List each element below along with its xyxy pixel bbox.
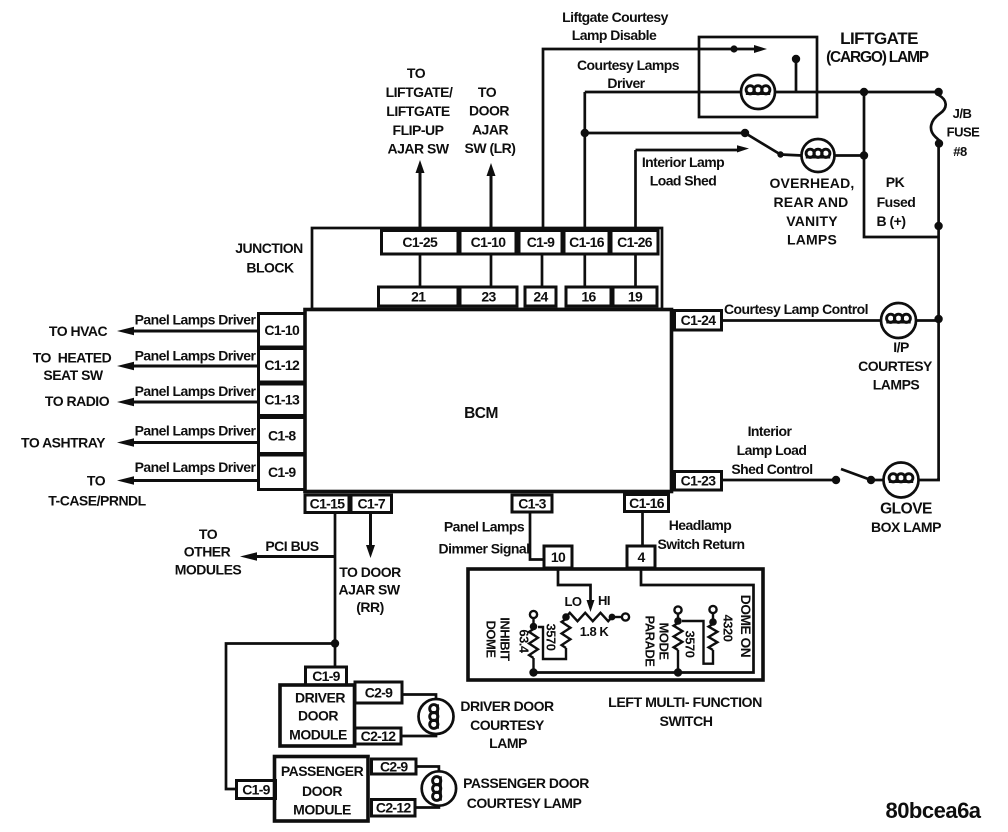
lamp: driver door courtesy lamp bulb bbox=[419, 699, 454, 734]
svg-text:SEAT SW: SEAT SW bbox=[43, 367, 104, 383]
label: PARADE MODE (rotated) bbox=[643, 616, 672, 668]
connector C1-15 (BCM bottom) bbox=[305, 495, 349, 513]
label: Courtesy Lamps Driver bbox=[577, 57, 680, 91]
svg-text:C2-9: C2-9 bbox=[380, 758, 408, 774]
wire: panel lamps driver arrow 1 bbox=[129, 330, 259, 333]
svg-text:LAMPS: LAMPS bbox=[873, 377, 920, 393]
svg-text:AJAR: AJAR bbox=[472, 122, 509, 138]
svg-text:C1-16: C1-16 bbox=[629, 495, 665, 511]
label: PASSENGER DOOR COURTESY LAMP bbox=[463, 775, 589, 811]
wire: panel lamps driver arrow 3 bbox=[129, 401, 259, 404]
node: bottom rail left junction bbox=[529, 668, 537, 676]
svg-text:3570: 3570 bbox=[683, 631, 698, 658]
wire: pin 21 to C1-25 bbox=[419, 254, 422, 287]
svg-text:C1-9: C1-9 bbox=[527, 234, 555, 250]
svg-text:TO RADIO: TO RADIO bbox=[45, 393, 110, 409]
connector C1-9 (driver door module) bbox=[306, 667, 347, 685]
svg-text:16: 16 bbox=[581, 288, 596, 304]
label: OVERHEAD REAR AND VANITY LAMPS bbox=[769, 175, 854, 248]
wire: C1-26 up to load-shed arrow contact bbox=[636, 145, 750, 287]
junction block outline bbox=[312, 228, 662, 309]
svg-text:DOME: DOME bbox=[484, 621, 499, 659]
svg-text:C1-16: C1-16 bbox=[569, 234, 605, 250]
label: LEFT MULTI- FUNCTION SWITCH bbox=[608, 695, 762, 730]
pin 10 (multifunction switch) bbox=[544, 546, 572, 568]
svg-text:C1-9: C1-9 bbox=[242, 781, 270, 797]
svg-text:C1-8: C1-8 bbox=[268, 427, 296, 443]
node: pot left end bbox=[562, 613, 570, 621]
resistor: 3570 (dimmer branch) bbox=[562, 619, 571, 648]
lamp: overhead rear vanity lamps bulb bbox=[802, 139, 835, 172]
wire: C2-9 to driver courtesy lamp bbox=[402, 695, 436, 700]
wire: courtesy lamps driver vertical from junction block C1-16 bbox=[583, 92, 586, 287]
wire: PK fused B(+) drop from top rail to main vertical bbox=[864, 92, 939, 237]
label: DRIVER DOOR COURTESY LAMP bbox=[460, 698, 554, 751]
svg-text:MODULE: MODULE bbox=[293, 802, 351, 818]
label: I/P COURTESY LAMPS bbox=[858, 339, 933, 393]
svg-text:C1-10: C1-10 bbox=[471, 234, 507, 250]
svg-text:C1-12: C1-12 bbox=[264, 357, 300, 373]
svg-text:HI: HI bbox=[598, 593, 610, 608]
pin 23 (BCM top) bbox=[460, 287, 517, 306]
svg-text:Load Shed: Load Shed bbox=[650, 173, 717, 189]
svg-text:INHIBIT: INHIBIT bbox=[498, 617, 513, 661]
svg-text:PASSENGER: PASSENGER bbox=[281, 763, 364, 779]
wire: courtesy lamps driver feed into liftgate lamp bbox=[585, 91, 742, 94]
label: Headlamp Switch Return bbox=[658, 517, 745, 552]
svg-text:DOOR: DOOR bbox=[469, 103, 509, 119]
wire + terminal: pot HI end open contact bbox=[612, 613, 629, 620]
svg-text:LEFT MULTI- FUNCTION: LEFT MULTI- FUNCTION bbox=[608, 695, 762, 711]
svg-text:C1-15: C1-15 bbox=[310, 496, 346, 512]
wire: panel lamps driver arrow 5 bbox=[129, 479, 259, 482]
svg-text:TO HVAC: TO HVAC bbox=[49, 323, 108, 339]
svg-text:TO DOOR: TO DOOR bbox=[339, 564, 401, 580]
wire: C2-12 to passenger courtesy lamp bbox=[415, 806, 439, 808]
svg-text:Panel Lamps Driver: Panel Lamps Driver bbox=[135, 383, 257, 399]
svg-text:OTHER: OTHER bbox=[184, 544, 231, 560]
wire: C1-9 bus down to driver door module bbox=[334, 644, 337, 668]
svg-text:Lamp Disable: Lamp Disable bbox=[572, 27, 657, 43]
pin 4 (multifunction switch) bbox=[627, 546, 655, 568]
svg-text:TO: TO bbox=[199, 526, 218, 542]
wire: glove box lamp to B(+) vertical bbox=[919, 478, 939, 480]
resistor: 63.4 bbox=[529, 629, 538, 658]
resistor: 4320 bbox=[709, 624, 718, 650]
fuse: J/B FUSE #8 bbox=[931, 95, 946, 141]
wire: branch to passenger door module bbox=[226, 644, 335, 790]
wire: switch to glove box lamp bbox=[871, 479, 884, 482]
svg-text:C1-9: C1-9 bbox=[268, 464, 296, 480]
switch contact stub inside liftgate lamp box bbox=[792, 55, 800, 91]
connector C1-8 (BCM left side) bbox=[259, 418, 306, 454]
svg-text:Courtesy Lamp Control: Courtesy Lamp Control bbox=[724, 301, 868, 317]
pin 21 (BCM top) bbox=[379, 287, 459, 306]
svg-text:C1-23: C1-23 bbox=[681, 473, 717, 489]
connector C1-10 (junction block) bbox=[460, 231, 516, 255]
label: TO OTHER MODULES bbox=[175, 526, 242, 578]
connector C1-25 (junction block) bbox=[382, 231, 459, 255]
node: liftgate lamp switch pivot dot bbox=[730, 45, 737, 52]
svg-text:DRIVER DOOR: DRIVER DOOR bbox=[460, 698, 554, 714]
connector C1-16 (junction block) bbox=[564, 231, 609, 255]
label: destination 4 bbox=[21, 435, 106, 451]
svg-text:TO: TO bbox=[87, 473, 106, 489]
component box: LIFTGATE (CARGO) LAMP enclosure bbox=[699, 37, 817, 117]
lamp: passenger door courtesy lamp bulb bbox=[422, 771, 456, 805]
svg-text:LO: LO bbox=[564, 594, 581, 609]
wire: pin 4 feed around switch interior (bottom rail) bbox=[534, 568, 754, 673]
label: Interior Lamp Load Shed bbox=[642, 154, 724, 189]
svg-text:BLOCK: BLOCK bbox=[246, 260, 294, 276]
wire: courtesy lamp control to I/P lamps bbox=[722, 319, 882, 322]
svg-text:C1-25: C1-25 bbox=[402, 234, 438, 250]
svg-text:OVERHEAD,: OVERHEAD, bbox=[769, 175, 854, 191]
svg-text:#8: #8 bbox=[953, 144, 967, 159]
label: destination 5 bbox=[48, 473, 146, 509]
svg-text:MODULE: MODULE bbox=[289, 727, 347, 743]
wire: panel lamps driver arrow 4 bbox=[129, 441, 259, 444]
svg-text:10: 10 bbox=[551, 549, 566, 565]
connector C1-16 (BCM bottom) bbox=[625, 495, 669, 512]
pin 19 (BCM top) bbox=[613, 287, 657, 306]
arrow: to door ajar sw (LR) bbox=[490, 173, 493, 231]
svg-text:TO HEATED: TO HEATED bbox=[33, 350, 112, 366]
svg-text:C1-13: C1-13 bbox=[264, 392, 300, 408]
svg-text:C1-24: C1-24 bbox=[681, 312, 717, 328]
svg-text:Liftgate Courtesy: Liftgate Courtesy bbox=[562, 9, 669, 25]
wire: top B(+) rail from liftgate lamp to J/B fuse bbox=[775, 91, 939, 94]
node: glove box switch left contact bbox=[832, 476, 840, 484]
label: JUNCTION BLOCK bbox=[235, 240, 303, 276]
label: Liftgate Courtesy Lamp Disable bbox=[562, 9, 669, 43]
connector C1-9 (passenger door module) bbox=[237, 781, 276, 799]
label: Interior Lamp Load Shed Control bbox=[731, 423, 812, 477]
svg-text:TO ASHTRAY: TO ASHTRAY bbox=[21, 435, 106, 451]
svg-text:LAMP: LAMP bbox=[489, 735, 527, 751]
wiper arrow onto 1.8K pot bbox=[587, 600, 595, 612]
svg-text:23: 23 bbox=[481, 288, 496, 304]
svg-text:Panel Lamps Driver: Panel Lamps Driver bbox=[135, 348, 257, 364]
component: BCM body control module bbox=[305, 310, 672, 492]
connector C1-3 (BCM bottom) bbox=[512, 495, 552, 512]
wire: C2-12 to driver courtesy lamp bbox=[401, 734, 436, 737]
svg-text:C1-10: C1-10 bbox=[264, 322, 300, 338]
arrow: PCI bus to other modules bbox=[252, 555, 335, 558]
svg-text:(CARGO) LAMP: (CARGO) LAMP bbox=[826, 49, 929, 66]
svg-text:C2-12: C2-12 bbox=[361, 728, 397, 744]
terminal: DOME INHIBIT open contact bbox=[530, 611, 537, 618]
lamp: I/P courtesy lamps bulb bbox=[881, 303, 916, 338]
component: PASSENGER DOOR MODULE bbox=[275, 757, 369, 822]
resistor: 1.8K dimmer pot bbox=[566, 613, 612, 621]
svg-text:1.8 K: 1.8 K bbox=[580, 624, 610, 639]
wire: pin 24 to C1-9 bbox=[541, 254, 544, 287]
svg-text:AJAR SW: AJAR SW bbox=[338, 582, 400, 598]
wire: main B(+) vertical bus x=939 bbox=[937, 144, 940, 481]
node: junction dot on B(+) vertical above PK join bbox=[934, 222, 942, 230]
svg-text:80bcea6a: 80bcea6a bbox=[885, 798, 981, 823]
svg-text:GLOVE: GLOVE bbox=[880, 501, 932, 518]
connector C1-9 (junction block) bbox=[519, 231, 562, 255]
node: pot right end bbox=[609, 614, 616, 621]
pin 16 (BCM top) bbox=[566, 287, 611, 306]
svg-text:BCM: BCM bbox=[464, 405, 498, 422]
svg-text:Lamp Load: Lamp Load bbox=[737, 442, 807, 458]
wire: load shed switch feed (to blade pivot) bbox=[585, 132, 743, 135]
connector C1-26 (junction block) bbox=[611, 231, 658, 255]
svg-text:PCI BUS: PCI BUS bbox=[265, 538, 318, 554]
svg-text:JUNCTION: JUNCTION bbox=[235, 240, 303, 256]
connector C1-24 (BCM right side) bbox=[675, 311, 722, 331]
wire: 4320 bottom loop to parade junction bbox=[682, 621, 713, 664]
wire: pin 10 to dimmer pot wiper bbox=[558, 568, 591, 600]
svg-text:I/P: I/P bbox=[893, 339, 909, 355]
node: load shed switch upper contact bbox=[741, 129, 749, 137]
svg-text:COURTESY: COURTESY bbox=[470, 717, 545, 733]
svg-text:PK: PK bbox=[886, 174, 905, 190]
svg-text:LIFTGATE: LIFTGATE bbox=[386, 103, 450, 119]
wire: C2-9 to passenger courtesy lamp bbox=[416, 767, 439, 772]
wire: overhead lamp to B(+) drop bbox=[835, 154, 865, 157]
svg-text:C2-9: C2-9 bbox=[365, 684, 393, 700]
wire: Liftgate Courtesy Lamp Disable (junction block C1-9 up and over to liftgate lamp switch) bbox=[543, 49, 731, 232]
svg-text:DOME ON: DOME ON bbox=[738, 595, 753, 658]
svg-text:PARADE: PARADE bbox=[643, 616, 658, 668]
svg-text:C1-7: C1-7 bbox=[357, 496, 385, 512]
svg-text:REAR AND: REAR AND bbox=[774, 194, 849, 210]
switch: liftgate lamp built-in switch blade (arrow) bbox=[737, 45, 767, 53]
wire: I/P lamp to B(+) vertical bbox=[916, 319, 939, 322]
svg-text:LIFTGATE: LIFTGATE bbox=[840, 29, 918, 48]
connector C1-12 (BCM left side) bbox=[259, 349, 306, 383]
svg-text:(RR): (RR) bbox=[356, 599, 384, 615]
svg-text:Fused: Fused bbox=[877, 194, 916, 210]
svg-text:MODULES: MODULES bbox=[175, 562, 242, 578]
svg-text:BOX LAMP: BOX LAMP bbox=[871, 519, 941, 535]
connector C2-12 (passenger door module) bbox=[372, 800, 416, 817]
component box: LEFT MULTI-FUNCTION SWITCH bbox=[468, 569, 763, 680]
svg-text:PASSENGER DOOR: PASSENGER DOOR bbox=[463, 775, 589, 791]
svg-text:24: 24 bbox=[533, 288, 548, 304]
wire: interior lamp load shed control bbox=[722, 479, 837, 482]
svg-text:21: 21 bbox=[411, 288, 426, 304]
svg-text:B (+): B (+) bbox=[877, 213, 906, 229]
wire: 63.4 to bottom rail bbox=[532, 658, 534, 673]
node: parade junction bbox=[674, 614, 682, 625]
switch: glove box lamp switch blade bbox=[841, 469, 875, 484]
svg-text:FLIP-UP: FLIP-UP bbox=[393, 122, 444, 138]
terminal: DOME ON open contact bbox=[709, 606, 716, 613]
wire: parade 3570 to bottom rail bbox=[677, 650, 679, 673]
label: destination 3 bbox=[45, 393, 110, 409]
node: dome inhibit junction bbox=[530, 618, 538, 630]
component: DRIVER DOOR MODULE bbox=[280, 685, 355, 746]
wire: C1-3 to multifunction switch pin 10 (panel lamps dimmer signal) bbox=[530, 512, 544, 560]
node: dome-on resistor top bbox=[709, 613, 717, 626]
connector C1-10 (BCM left side) bbox=[259, 314, 306, 348]
label: TO LIFTGATE/LIFTGATE FLIP-UP AJAR SW bbox=[386, 65, 453, 157]
svg-text:C2-12: C2-12 bbox=[376, 800, 412, 816]
svg-text:Interior Lamp: Interior Lamp bbox=[642, 154, 724, 170]
svg-text:Courtesy Lamps: Courtesy Lamps bbox=[577, 57, 680, 73]
svg-text:SWITCH: SWITCH bbox=[660, 714, 713, 730]
label: destination 1 bbox=[49, 323, 108, 339]
wire: load shed blade to overhead lamp bbox=[781, 155, 803, 156]
svg-text:FUSE: FUSE bbox=[947, 125, 981, 140]
svg-text:Headlamp: Headlamp bbox=[669, 517, 732, 533]
node: junction on driver wire at load-shed tee bbox=[581, 129, 589, 137]
svg-text:Dimmer Signal: Dimmer Signal bbox=[439, 541, 530, 557]
svg-text:LIFTGATE/: LIFTGATE/ bbox=[386, 84, 453, 100]
svg-text:4320: 4320 bbox=[721, 615, 736, 642]
svg-text:Driver: Driver bbox=[607, 75, 645, 91]
svg-text:J/B: J/B bbox=[953, 106, 972, 121]
svg-text:SW (LR): SW (LR) bbox=[465, 140, 516, 156]
label: TO DOOR AJAR SW (RR) bbox=[338, 564, 401, 615]
label: Panel Lamps Dimmer Signal bbox=[439, 519, 530, 557]
svg-text:AJAR SW: AJAR SW bbox=[387, 141, 449, 157]
svg-text:4: 4 bbox=[637, 549, 645, 565]
resistor: 3570 (parade branch) bbox=[674, 623, 683, 650]
svg-text:Shed Control: Shed Control bbox=[731, 461, 812, 477]
connector C1-7 (BCM bottom) bbox=[351, 495, 392, 513]
svg-text:C1-3: C1-3 bbox=[518, 495, 546, 511]
wire: panel lamps driver arrow 2 bbox=[129, 365, 259, 368]
svg-text:Panel Lamps: Panel Lamps bbox=[444, 519, 525, 535]
label: destination 2 bbox=[33, 350, 112, 384]
svg-text:Panel Lamps Driver: Panel Lamps Driver bbox=[135, 423, 257, 439]
svg-text:63.4: 63.4 bbox=[517, 629, 532, 654]
svg-text:Panel Lamps Driver: Panel Lamps Driver bbox=[135, 311, 257, 327]
svg-text:T-CASE/PRNDL: T-CASE/PRNDL bbox=[48, 493, 146, 509]
wire: 3570 bottom loop to dome-inhibit junction bbox=[538, 627, 566, 659]
label: PK Fused B (+) bbox=[877, 174, 916, 229]
svg-text:DOOR: DOOR bbox=[298, 708, 338, 724]
node: fuse top terminal bbox=[934, 88, 942, 96]
label: J/B FUSE #8 bbox=[947, 106, 981, 159]
svg-text:Interior: Interior bbox=[748, 423, 793, 439]
connector C2-9 (passenger door module) bbox=[372, 758, 417, 774]
svg-text:COURTESY LAMP: COURTESY LAMP bbox=[467, 795, 582, 811]
svg-text:MODE: MODE bbox=[657, 623, 672, 661]
label: DOME INHIBIT (rotated) bbox=[484, 617, 513, 661]
node: fuse bottom terminal bbox=[935, 139, 943, 147]
svg-text:3570: 3570 bbox=[544, 624, 559, 651]
lamp: liftgate cargo lamp bulb bbox=[741, 75, 775, 109]
wire: PCI bus from C1-15 down bbox=[334, 513, 337, 644]
svg-text:C1-26: C1-26 bbox=[617, 234, 653, 250]
node: junction I/P lamp on B(+) vertical bbox=[934, 315, 942, 323]
switch: interior lamp load shed blade bbox=[745, 133, 784, 158]
node: junction PCI/door-module bus bbox=[331, 639, 339, 647]
node: junction top rail / PK drop bbox=[860, 88, 868, 96]
label: LIFTGATE (CARGO) LAMP bbox=[826, 29, 929, 66]
pin 24 (BCM top) bbox=[525, 287, 556, 306]
connector C1-9 (BCM left side) bbox=[259, 455, 306, 490]
connector C1-23 (BCM right side) bbox=[675, 472, 722, 491]
terminal: PARADE MODE open contact bbox=[674, 606, 681, 613]
svg-text:Panel Lamps Driver: Panel Lamps Driver bbox=[135, 459, 257, 475]
svg-text:C1-9: C1-9 bbox=[312, 668, 340, 684]
svg-text:DRIVER: DRIVER bbox=[295, 690, 345, 706]
connector C1-13 (BCM left side) bbox=[259, 384, 306, 416]
node: bottom rail right junction bbox=[674, 668, 682, 676]
svg-text:DOOR: DOOR bbox=[302, 783, 342, 799]
svg-text:TO: TO bbox=[407, 65, 426, 81]
svg-text:VANITY: VANITY bbox=[786, 213, 838, 229]
arrow: to liftgate/liftgate flip-up ajar sw bbox=[419, 170, 422, 231]
svg-text:LAMPS: LAMPS bbox=[787, 232, 837, 248]
label: TO DOOR AJAR SW (LR) bbox=[465, 84, 516, 156]
lamp: glove box lamp bulb bbox=[884, 463, 919, 498]
label: GLOVE BOX LAMP bbox=[871, 501, 941, 536]
svg-text:COURTESY: COURTESY bbox=[858, 358, 933, 374]
wire: C1-16 to multifunction switch pin 4 (headlamp switch return) bbox=[641, 512, 644, 547]
arrow: C1-7 to door ajar sw (RR) bbox=[369, 513, 372, 549]
svg-text:Switch Return: Switch Return bbox=[658, 536, 745, 552]
svg-text:TO: TO bbox=[478, 84, 497, 100]
connector C2-12 (driver door module) bbox=[355, 728, 401, 744]
wire: pin 23 to C1-10 bbox=[490, 254, 493, 287]
connector C2-9 (driver door module) bbox=[355, 682, 402, 703]
node: junction overhead lamp / PK drop wire bbox=[860, 151, 868, 159]
svg-text:19: 19 bbox=[628, 288, 643, 304]
